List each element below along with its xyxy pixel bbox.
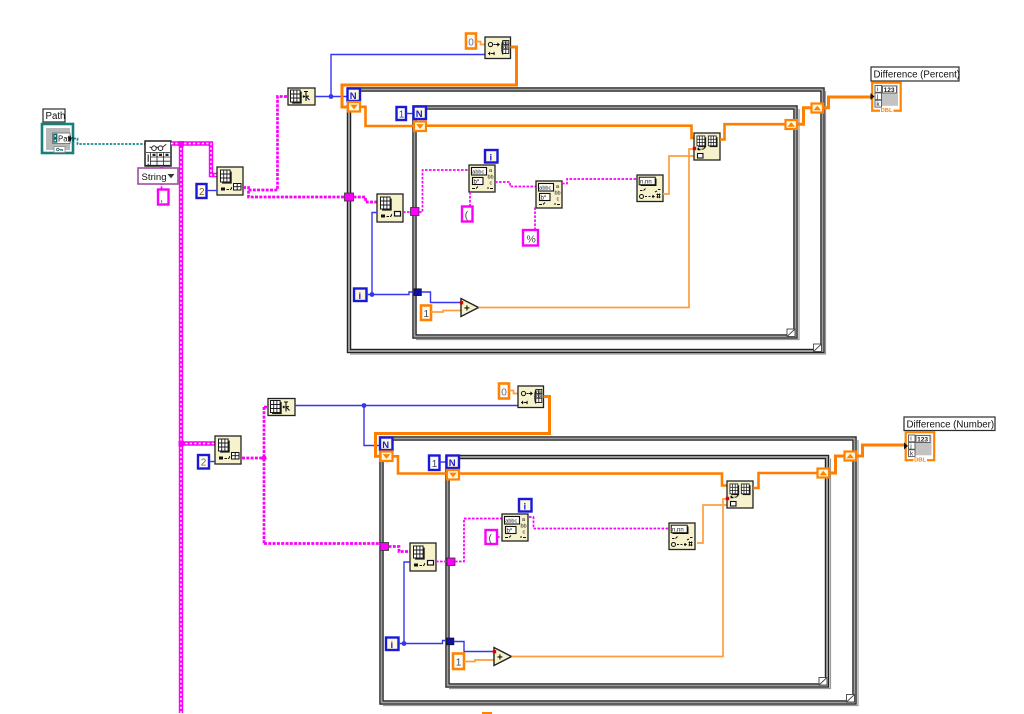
wire index4 out to tunnel — [436, 561, 448, 563]
for-loop outer 1 corner fold — [814, 344, 822, 352]
svg-text:i: i — [524, 501, 527, 512]
wire tunnel to index array 2 — [354, 197, 378, 202]
control Path (file path control) — [42, 124, 74, 153]
node Match Pattern 1 — [469, 165, 495, 192]
wire path control to VI (teal) — [74, 139, 146, 145]
wire i to tunnel blue 1 — [367, 292, 415, 297]
for-loop inner 1 corner fold — [787, 329, 795, 337]
wire match1 out to match2 — [495, 182, 536, 187]
shift register left inner 2 — [447, 470, 459, 480]
tunnel blue inner 2 — [447, 638, 454, 645]
wire paren to match 1 — [469, 192, 471, 207]
shift register left outer 2 — [381, 452, 393, 462]
wire tunnel to add 1 — [421, 292, 460, 303]
svg-text:Path: Path — [46, 111, 66, 122]
terminal N outer 2 — [380, 438, 393, 451]
svg-text:Difference (Percent): Difference (Percent) — [874, 70, 961, 81]
wire 0 to initialize — [476, 42, 485, 45]
wire match3 out to n.nn 2 — [529, 517, 669, 529]
tunnel magenta outer 1 — [345, 193, 354, 201]
wire init1 out to shift register — [342, 47, 517, 107]
node Initialize Array 1 — [485, 37, 511, 59]
constant open paren 1 — [462, 207, 473, 222]
wire SR outer to SR inner 1 — [360, 107, 414, 126]
tunnel magenta outer 2 — [380, 543, 389, 551]
svg-text:2: 2 — [199, 187, 205, 198]
constant 0 (DBL) — [466, 34, 476, 49]
wire 1 to N inner 2 — [440, 461, 447, 463]
wire 1 to N inner 1 — [406, 113, 414, 115]
wire nnn1 out to build array — [663, 156, 694, 194]
node Match Pattern 2 — [536, 181, 562, 208]
wire index3 out — [242, 407, 267, 544]
indicator Difference (Percent) — [871, 83, 901, 114]
terminal i inner 1 (floating) — [485, 150, 498, 163]
wire 2D long vertical — [179, 141, 185, 713]
string constant comma — [158, 185, 169, 205]
wire tunnel to add 2 — [454, 642, 493, 652]
wire 1 to add 1 — [431, 311, 461, 313]
wire add2 out up to build array 2 — [512, 499, 727, 657]
node add (increment) 2 — [494, 648, 512, 666]
wire add1 out up to build array — [479, 149, 694, 308]
wire outer tunnel 2 to indicator 2 — [857, 445, 905, 456]
svg-text:Difference (Number): Difference (Number) — [907, 420, 995, 431]
terminal N outer 1 — [348, 89, 361, 102]
wire SR inner 2 across to build array 2 — [459, 474, 727, 486]
node Fract String To Number 1 — [637, 175, 663, 202]
wire tunnel to match 3 — [455, 519, 502, 562]
tunnel magenta inner 1 — [411, 208, 420, 216]
node Index Array 2 — [377, 194, 403, 222]
wire inner tunnel 2 to outer tunnel 2 — [829, 456, 845, 473]
shift register left inner 1 — [414, 122, 426, 132]
wire outer tunnel to indicator 1 — [823, 97, 871, 108]
wire index1 out 1D array — [243, 188, 345, 198]
svg-text:1: 1 — [424, 309, 430, 320]
node Array Size 2 — [268, 399, 295, 416]
node Build Array 2 — [727, 481, 753, 508]
node Index Array 3 — [215, 436, 241, 464]
constant 0 (DBL) section 2 — [499, 384, 509, 399]
svg-text:0: 0 — [501, 388, 507, 399]
node Fract String To Number 2 — [669, 523, 695, 550]
svg-text:N: N — [350, 91, 357, 102]
wire inner tunnel to outer tunnel 1 — [797, 108, 812, 124]
svg-text:N: N — [416, 109, 423, 120]
constant open paren 2 — [486, 530, 498, 545]
wire SR inner 1 across to build array — [426, 126, 694, 138]
tunnel up outer right 2 — [845, 452, 857, 461]
wire array size 2 out (I32) — [295, 403, 518, 445]
wire percent to match 2 — [534, 207, 536, 230]
for-loop inner 2 corner fold — [819, 678, 827, 686]
constant 2 (I32) — [197, 184, 207, 198]
tunnel up inner right 2 — [818, 469, 830, 478]
constant 1 (I32) inner N 2 — [429, 456, 440, 471]
terminal N inner 2 — [447, 456, 460, 469]
svg-text:1: 1 — [456, 658, 462, 669]
wire tap to array size 2 — [264, 406, 268, 409]
tunnel up outer right 1 — [812, 104, 824, 113]
node Index Array 4 — [410, 543, 436, 571]
wire build1 out to inner tunnel — [720, 124, 786, 139]
svg-text:,: , — [160, 194, 163, 205]
constant percent — [523, 230, 538, 246]
for-loop outer 2 frame — [380, 437, 858, 706]
svg-text:N: N — [382, 440, 389, 451]
clipped constant bottom center — [482, 712, 492, 714]
wire index2 out to tunnel — [403, 211, 411, 213]
tunnel magenta inner 2 — [447, 558, 455, 566]
tunnel blue inner 1 — [414, 289, 421, 296]
wire array size out (I32) — [315, 55, 485, 99]
terminal N inner 1 — [414, 107, 427, 120]
wire 2D into index array 3 — [179, 441, 216, 447]
svg-text:i: i — [359, 291, 362, 302]
wire build2 out to inner tunnel 2 — [753, 473, 818, 488]
wire match2 out to n.nn 1 — [562, 179, 637, 184]
svg-text:String: String — [142, 172, 167, 183]
wire 2 to index — [207, 190, 218, 192]
terminal i outer 1 — [354, 289, 367, 302]
svg-text:i: i — [391, 640, 394, 651]
wire 2 to index 3 — [209, 461, 215, 463]
wire SR outer 2 to SR inner 2 — [393, 456, 448, 473]
node Initialize Array 2 — [518, 386, 544, 408]
wire i1 junction up to index2 — [372, 213, 377, 295]
svg-text:2: 2 — [201, 458, 207, 469]
node Match Pattern 3 — [502, 514, 528, 541]
for-loop outer 2 corner fold — [847, 695, 855, 703]
for-loop inner 1 frame — [413, 106, 799, 340]
coercion dot build 2 — [726, 497, 729, 500]
svg-text:i: i — [490, 152, 493, 163]
constant 1 (DBL) add 1 — [421, 306, 431, 321]
wire tunnel to index array 4 — [389, 547, 411, 552]
svg-text:0: 0 — [468, 38, 474, 49]
indicator Difference (Number) — [904, 432, 934, 463]
indicator label Difference (Percent) — [871, 67, 960, 81]
wire 0 to initialize 2 — [509, 391, 518, 394]
terminal i inner 2 (floating) — [519, 499, 532, 512]
wire init2 out to shift register 2 — [376, 397, 550, 457]
for-loop inner 2 frame — [446, 456, 831, 689]
svg-text:%: % — [527, 234, 536, 246]
wire tunnel to match 1 — [419, 170, 469, 212]
node Index Array 1 — [217, 167, 243, 195]
terminal i outer 2 — [386, 638, 399, 651]
coercion dot add 2 — [493, 650, 496, 653]
node add (increment) 1 — [461, 299, 479, 317]
constant 1 (I32) inner N 1 — [397, 107, 407, 121]
svg-text:1: 1 — [432, 459, 438, 470]
coercion dot add 1 — [460, 301, 463, 304]
node Array Size 1 — [288, 88, 315, 105]
tunnel up inner right 1 — [786, 120, 798, 129]
coercion dot build 1 — [693, 147, 696, 150]
control label Path — [43, 109, 65, 122]
svg-text:1: 1 — [399, 110, 405, 121]
wire tap to array size 1 — [249, 97, 289, 191]
svg-text:N: N — [449, 458, 456, 469]
ring constant String — [138, 166, 178, 184]
indicator label Difference (Number) — [904, 417, 995, 431]
shift register left outer 1 — [348, 102, 360, 112]
wire VI out 2D string array — [171, 144, 217, 176]
node Build Array 1 — [694, 133, 720, 160]
for-loop outer 1 frame — [348, 88, 826, 354]
constant 2 (I32) section 2 — [198, 455, 209, 469]
constant 1 (DBL) add 2 — [453, 654, 464, 670]
wire i to tunnel blue 2 — [399, 641, 447, 646]
wire down to loop tunnel 2 — [264, 542, 381, 545]
wire 1 to add 2 — [464, 660, 494, 662]
wire i2 junction up to index4 — [404, 562, 410, 644]
wire paren to match 3 — [497, 536, 502, 538]
VI Read Delimited Spreadsheet — [145, 141, 171, 166]
wire nnn2 out to build array 2 — [697, 505, 727, 543]
